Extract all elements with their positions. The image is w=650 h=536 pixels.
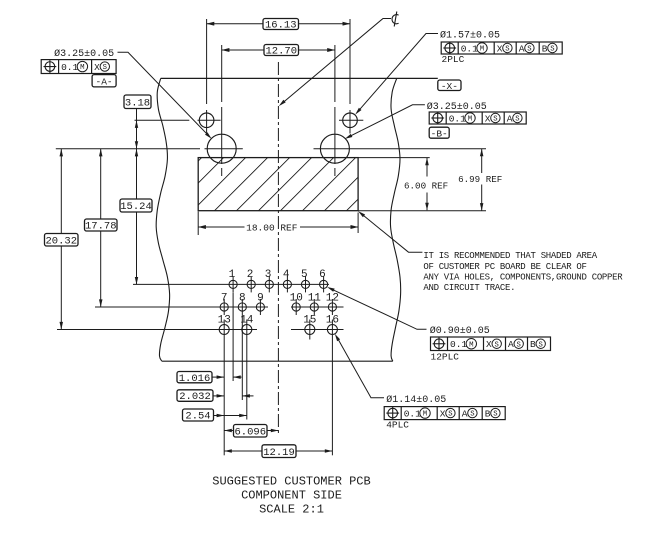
callout dia 3.25 datum B leader [347,105,425,138]
hole centerline horizontal right / 6.99 ext [314,148,487,150]
centerline symbol leader [281,19,391,105]
svg-text:3.18: 3.18 [125,98,150,110]
extension line pin 8 column [241,315,243,400]
svg-text:5: 5 [301,269,308,281]
svg-text:M: M [468,116,472,124]
svg-text:8: 8 [239,293,246,305]
svg-text:S: S [493,411,497,419]
extension line pin 14 column [246,340,248,420]
callout dia 1.14 leader [337,337,384,398]
svg-text:Ø3.25±0.05: Ø3.25±0.05 [54,48,114,60]
pin row 1 centerline [133,283,329,285]
small hole centerline horizontal right [339,119,363,121]
svg-text:A: A [462,409,468,420]
callout dia 1.57 leader [357,34,438,113]
svg-text:2.032: 2.032 [179,391,211,403]
svg-text:9: 9 [257,293,264,305]
pin 2 [247,280,255,288]
dimension 18.00 REF [197,212,199,236]
svg-text:M: M [423,411,427,419]
svg-text:S: S [505,46,509,54]
svg-text:A: A [507,113,513,124]
svg-text:-B-: -B- [431,128,448,139]
PCB bottom edge [162,360,393,362]
pin 9 [256,303,264,311]
large hole vertical centerline left [221,107,223,164]
svg-text:4: 4 [283,269,290,281]
dimension 2.54 [214,415,247,417]
svg-text:4PLC: 4PLC [386,420,409,431]
pin 16 [327,325,337,335]
small hole vertical centerline left [206,110,208,134]
FCF datum A [41,60,116,74]
svg-text:1.016: 1.016 [179,373,211,385]
svg-text:A: A [519,43,525,54]
pilot hole left (dia 1.57) [199,113,214,128]
pilot hole right (dia 1.57) [343,113,358,128]
svg-text:11: 11 [308,293,322,305]
svg-text:ANY VIA HOLES, COMPONENTS,GROU: ANY VIA HOLES, COMPONENTS,GROUND COPPER [423,272,623,282]
svg-text:SCALE 2:1: SCALE 2:1 [259,503,324,517]
pin 10 [292,303,300,311]
svg-text:S: S [495,341,499,349]
extension line pin 13 column [223,340,225,456]
dimension 6.00 REF [358,157,430,159]
svg-text:0.1: 0.1 [450,339,467,350]
small hole centerline horizontal left / 3.18 ext [135,119,190,121]
svg-text:Ø0.90±0.05: Ø0.90±0.05 [430,325,490,337]
hole centerline horizontal left [56,148,200,150]
svg-text:S: S [515,116,519,124]
extension line large hole right (12.70) [334,45,336,102]
svg-text:12: 12 [326,293,339,305]
pin 11 [310,303,318,311]
svg-text:S: S [103,64,107,72]
pin row 2 centerline [95,306,268,308]
svg-text:1: 1 [229,269,236,281]
FCF dia 3.25 B [429,112,526,124]
dimension 3.18 [136,109,138,149]
svg-text:B: B [530,339,536,350]
datum B box [429,127,449,138]
svg-text:13: 13 [218,315,231,327]
svg-text:Ø1.57±0.05: Ø1.57±0.05 [440,30,500,42]
dimension 20.32 [60,149,62,234]
extension line small hole right (16.13) [349,19,351,104]
svg-text:X: X [440,409,446,420]
small hole vertical centerline right [349,110,351,134]
svg-text:0.1: 0.1 [461,43,478,54]
svg-text:M: M [80,64,84,72]
svg-text:15.24: 15.24 [120,201,152,213]
svg-text:0.1: 0.1 [449,113,466,124]
svg-text:X: X [485,113,491,124]
FCF dia 1.57 [441,42,562,54]
svg-text:X: X [486,339,492,350]
svg-text:12.70: 12.70 [265,46,297,58]
svg-text:X: X [497,43,503,54]
svg-text:S: S [527,46,531,54]
large hole vertical centerline right [334,107,336,164]
svg-text:6.00 REF: 6.00 REF [404,180,448,191]
dimension 12.70 [222,49,264,51]
pin 5 [301,280,309,288]
svg-text:S: S [470,411,474,419]
pin 14 [242,325,252,335]
svg-text:16: 16 [326,315,339,327]
pin 8 [238,303,246,311]
mounting hole left (dia 3.25, datum A) [207,134,236,163]
svg-text:AND CIRCUIT TRACE.: AND CIRCUIT TRACE. [423,283,515,293]
svg-text:Ø1.14±0.05: Ø1.14±0.05 [386,394,446,406]
svg-text:B: B [485,409,491,420]
svg-text:6.99 REF: 6.99 REF [458,174,502,185]
dimension 6.096 [224,430,233,432]
svg-text:-X-: -X- [441,81,458,92]
pin 3 [265,280,273,288]
pin 13 [219,325,229,335]
svg-text:16.13: 16.13 [265,20,297,32]
svg-text:M: M [469,341,473,349]
svg-text:0.1: 0.1 [61,62,78,73]
svg-text:2PLC: 2PLC [442,54,465,65]
dimension 16.13 [207,23,263,25]
dimension 1.016 [212,376,224,378]
svg-text:2: 2 [247,269,254,281]
extension line large hole left (12.70) [221,45,223,102]
svg-text:B: B [542,43,548,54]
dimension 17.78 [100,149,102,219]
svg-text:Ø3.25±0.05: Ø3.25±0.05 [427,101,487,113]
pin row 3 centerline [57,329,257,331]
svg-text:A: A [508,339,514,350]
svg-text:S: S [493,116,497,124]
svg-text:10: 10 [290,293,303,305]
pin 6 [320,280,328,288]
keepout note leader [360,213,422,252]
svg-text:17.78: 17.78 [85,221,117,233]
svg-text:3: 3 [265,269,272,281]
svg-text:S: S [517,341,521,349]
svg-text:X: X [94,62,100,73]
right break line (wavy) [390,78,400,361]
svg-text:7: 7 [221,293,228,305]
svg-text:12.19: 12.19 [263,447,295,459]
vertical centerline [277,62,279,434]
extension line pin 16 column [331,340,333,456]
FCF dia 1.14 [384,407,505,420]
svg-text:S: S [539,341,543,349]
datum A box [92,75,116,87]
svg-text:0.1: 0.1 [404,409,421,420]
pin 4 [283,280,291,288]
svg-text:6.096: 6.096 [234,426,266,438]
svg-text:IT IS RECOMMENDED THAT SHADED: IT IS RECOMMENDED THAT SHADED AREA [423,251,597,261]
dimension 6.99 REF [358,210,486,212]
svg-text:S: S [550,46,554,54]
svg-text:COMPONENT SIDE: COMPONENT SIDE [241,489,342,503]
left break line (wavy) [156,78,169,361]
pin 1 [229,280,237,288]
svg-text:6: 6 [319,269,326,281]
centerline symbol [392,15,399,24]
pin 12 [328,303,336,311]
dimension 2.032 [213,395,224,397]
pin 15 [305,325,315,335]
svg-text:12PLC: 12PLC [431,352,460,363]
svg-text:S: S [448,411,452,419]
svg-text:-A-: -A- [96,77,113,88]
svg-text:OF CUSTOMER PC BOARD BE CLEAR: OF CUSTOMER PC BOARD BE CLEAR OF [423,262,586,272]
dimension 15.24 [136,149,138,199]
svg-text:2.54: 2.54 [185,411,210,423]
callout dia 3.25 datum A leader [118,52,210,136]
dimension 12.19 [224,450,262,452]
svg-text:15: 15 [303,315,316,327]
svg-text:18.00 REF: 18.00 REF [246,222,298,233]
extension line pin 1 column [232,293,234,381]
callout dia 0.90 leader [329,288,427,329]
svg-text:20.32: 20.32 [45,235,77,247]
svg-text:M: M [480,46,484,54]
pin 7 [220,303,228,311]
mounting hole right (dia 3.25, datum B) [320,134,349,163]
datum X box [438,80,461,91]
extension line small hole left (16.13) [206,19,208,104]
PCB top edge (datum -X-) [161,77,438,79]
svg-text:SUGGESTED CUSTOMER PCB: SUGGESTED CUSTOMER PCB [212,475,370,489]
FCF dia 0.90 [431,337,551,351]
